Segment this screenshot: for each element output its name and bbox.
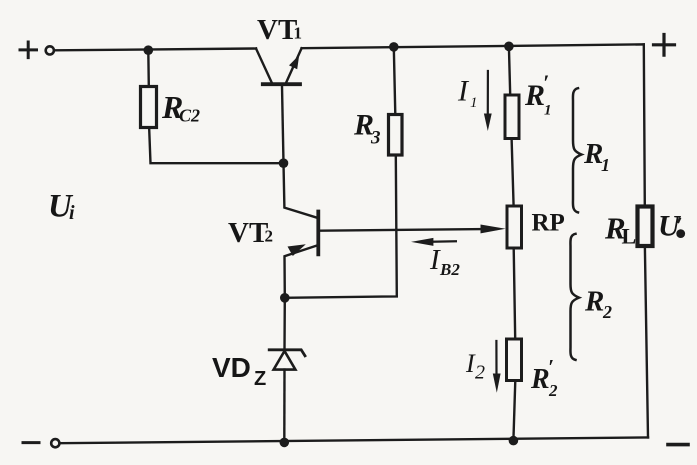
wire right rail down to load (644, 44, 645, 206)
minus dash bottom-left (23, 441, 39, 444)
svg-text:VT: VT (257, 14, 297, 46)
wire load to bottom rail (645, 248, 648, 437)
node emitter VT2 / zener / R3 (280, 293, 290, 303)
terminal top-left (46, 46, 54, 54)
node top of RC2 (144, 45, 154, 55)
brace R2 (570, 234, 579, 360)
wire R3 top lead (394, 47, 396, 115)
label R1 brace (583, 138, 610, 175)
label IB2 (429, 244, 460, 279)
node bottom of R2' (509, 436, 519, 446)
resistor RC2 (141, 87, 157, 128)
minus sign bottom-right (668, 443, 688, 447)
svg-text:3: 3 (370, 128, 381, 149)
resistor R3 (389, 115, 403, 156)
svg-text:U: U (658, 210, 681, 243)
label I1 (457, 75, 478, 112)
wire R2' bottom lead (513, 381, 515, 441)
wire top rail left segment (55, 49, 257, 51)
svg-text:RP: RP (532, 210, 565, 237)
label RL (604, 211, 636, 249)
svg-text:R: R (584, 286, 604, 318)
svg-text:C2: C2 (179, 106, 200, 126)
wire RC2 bottom lead to node A (149, 129, 283, 163)
brace R1 (573, 88, 582, 212)
label R2' (530, 355, 558, 400)
svg-text:R: R (530, 364, 550, 395)
svg-text:2: 2 (602, 302, 612, 322)
wire RC2 top lead (147, 50, 150, 86)
wire zener to bottom rail (283, 370, 286, 443)
svg-text:B2: B2 (439, 260, 460, 279)
svg-text:′: ′ (548, 355, 554, 379)
svg-text:i: i (69, 202, 75, 224)
label R2 brace (584, 286, 612, 323)
plus sign top-left (20, 42, 37, 58)
svg-text:′: ′ (543, 70, 549, 95)
node top of R1' (504, 42, 514, 52)
svg-text:VD: VD (212, 352, 251, 383)
node bottom of zener (280, 438, 290, 448)
arrow I2 (493, 341, 501, 393)
zener diode VDz (269, 350, 305, 370)
resistor R1' (505, 95, 519, 139)
label I2 (465, 349, 485, 384)
label R1' (524, 70, 552, 119)
label Uo (658, 210, 685, 243)
svg-text:1: 1 (601, 155, 610, 175)
resistor R2' (507, 339, 522, 381)
svg-text:1: 1 (470, 95, 478, 111)
wire R1' top lead (509, 46, 510, 95)
transistor VT2 (284, 163, 506, 298)
wire R3 bottom lead down and left to emitter node (285, 155, 397, 298)
svg-text:Z: Z (254, 368, 266, 390)
label Ui (48, 189, 75, 225)
wire bottom rail (60, 437, 648, 443)
label VT1 (257, 14, 302, 46)
arrow IB2 (411, 238, 456, 246)
svg-text:VT: VT (228, 217, 268, 249)
svg-text:1: 1 (294, 24, 303, 43)
node A (RC2 / VT1 base / VT2 collector) (279, 158, 289, 168)
resistor RL load (638, 207, 653, 247)
label RP (532, 210, 565, 237)
label VT2 (228, 217, 273, 249)
label R3 (353, 109, 381, 149)
wire RP to R2' (514, 248, 516, 339)
transistor VT1 (256, 48, 302, 163)
svg-text:R: R (524, 79, 545, 112)
terminal bottom-left (51, 439, 59, 447)
arrow I1 (484, 71, 492, 131)
svg-text:2: 2 (548, 381, 558, 400)
wire emitter node to zener (283, 298, 286, 350)
node top of R3 (389, 42, 399, 52)
svg-text:L: L (622, 224, 637, 249)
svg-text:2: 2 (475, 362, 485, 384)
svg-text:2: 2 (265, 227, 274, 246)
label RC2 (161, 89, 200, 126)
svg-text:1: 1 (544, 103, 552, 119)
plus sign top-right (654, 35, 675, 56)
potentiometer RP (507, 206, 522, 248)
wire R1' to RP (512, 139, 514, 207)
label VDz (212, 352, 266, 390)
wire top rail right segment (302, 44, 644, 48)
